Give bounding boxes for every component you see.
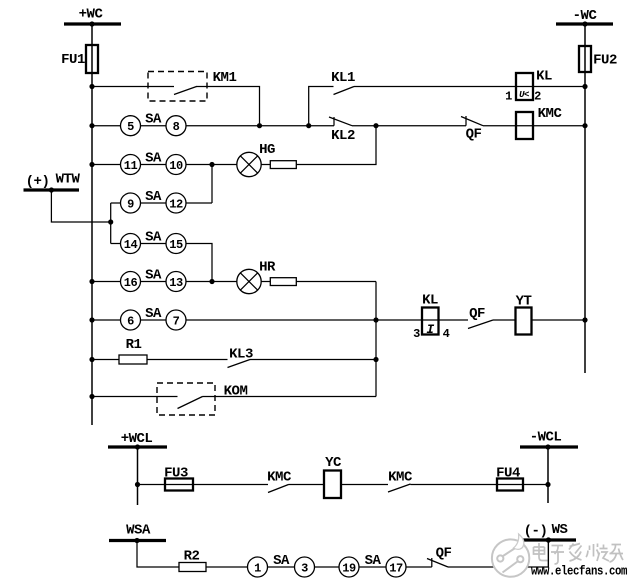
junction +WCL rung [135, 482, 140, 487]
bus bar +WCL [108, 445, 167, 448]
wire SA3 to SA19 [315, 566, 340, 568]
fuse FU4 [496, 466, 523, 491]
wire SA5 to SA8 [141, 125, 167, 127]
node (-)WS label [524, 522, 568, 540]
wire rung8 bus to R1 [92, 359, 119, 361]
SA contact 1 [248, 557, 268, 577]
junction WSA [134, 538, 139, 543]
junction WTW x110 [108, 219, 113, 224]
junction KM1 drop on rung2 [257, 123, 262, 128]
wire WSA down to R2 [137, 541, 179, 568]
svg-text:WS: WS [552, 522, 568, 538]
svg-text:FU3: FU3 [164, 466, 188, 482]
contact KOM (in dashed box) [157, 383, 247, 415]
wire SA10 to HG lamp [186, 164, 237, 166]
svg-text:YT: YT [516, 294, 532, 310]
resistor HR series [270, 278, 296, 286]
wire HG lamp to resistor [261, 164, 270, 166]
wire rung2 KL2 to QF [352, 125, 466, 127]
svg-text:(+): (+) [26, 174, 50, 190]
bus bar -WCL [520, 445, 578, 448]
node (+) WTW label [26, 172, 81, 191]
SA contact 11 [121, 155, 141, 175]
wire HR lamp to resistor [261, 281, 270, 283]
resistor HG series [270, 161, 296, 169]
contact KMC aux 2 [388, 470, 413, 493]
svg-text:12: 12 [169, 198, 183, 212]
svg-text:FU1: FU1 [61, 52, 85, 68]
wire WCL rung KMC2 to FU4 and -WCL [411, 484, 549, 486]
junction left bus rung2 [89, 123, 94, 128]
svg-text:3: 3 [301, 562, 308, 576]
bus bar +WC [64, 22, 121, 25]
SA contact 5 [121, 116, 141, 136]
svg-text:I: I [426, 322, 434, 337]
SA contact 17 [386, 557, 406, 577]
svg-text:KL: KL [536, 69, 552, 85]
junction rung7 x376 [373, 317, 378, 322]
wire rung8 KL3 to x376 [250, 359, 376, 361]
lamp HR [237, 260, 276, 294]
SA contact 9 [121, 193, 141, 213]
wire rung9 KOM to x376 [203, 396, 377, 398]
wire rung1 KM1 to drop [196, 87, 260, 126]
wire rung2 bus to SA5 [92, 125, 121, 127]
svg-text:KMC: KMC [388, 470, 413, 486]
fuse FU2 [579, 46, 617, 72]
svg-text:8: 8 [173, 120, 180, 134]
wire KL1 to KL coil and right bus [354, 86, 585, 88]
junction left bus rung6 [89, 279, 94, 284]
SA contact 12 [166, 193, 186, 213]
wire rung7 SA7 to QF [186, 319, 468, 321]
svg-text:1: 1 [505, 90, 512, 104]
wire rung3 bus to SA11 [92, 164, 121, 166]
wire rung7 bus to SA6 [92, 319, 121, 321]
svg-text:7: 7 [173, 315, 180, 329]
wire WTW feed (crosses left bus without joining) [51, 190, 110, 222]
SA contact 7 [166, 310, 186, 330]
contact QF (NC) bottom [427, 546, 451, 568]
svg-text:FU2: FU2 [593, 53, 617, 69]
wire SA19 to SA17 [359, 566, 386, 568]
wire right bus -WC vertical [584, 24, 586, 373]
svg-text:QF: QF [466, 127, 482, 143]
junction rung8 x376 [373, 357, 378, 362]
junction rung2 right bus [582, 123, 587, 128]
svg-text:KL2: KL2 [331, 128, 355, 144]
watermark logo circle [492, 534, 529, 577]
svg-text:1: 1 [254, 562, 261, 576]
SA contact 14 [121, 234, 141, 254]
SA contact 6 [121, 310, 141, 330]
contact QF rung7 [468, 306, 493, 329]
SA contact 19 [339, 557, 359, 577]
svg-text:KMC: KMC [538, 106, 563, 122]
junction WTW bar [49, 187, 54, 192]
contact KMC aux 1 [267, 470, 292, 493]
SA contact 3 [295, 557, 315, 577]
contactor coil KMC [516, 106, 562, 139]
lamp HG [237, 142, 275, 177]
svg-text:17: 17 [389, 562, 403, 576]
wire rung2 QF to KMC coil and right bus [483, 125, 585, 127]
svg-text:3: 3 [413, 327, 420, 341]
resistor R2 [179, 549, 206, 572]
svg-text:WSA: WSA [126, 523, 151, 539]
junction rung6 x212 [209, 279, 214, 284]
watermark text chinese [534, 543, 624, 564]
svg-text:QF: QF [436, 546, 452, 562]
svg-text:KL1: KL1 [331, 70, 355, 86]
svg-text:KM1: KM1 [213, 70, 237, 86]
wire SA14 to SA15 [141, 243, 167, 245]
svg-text:9: 9 [127, 198, 134, 212]
wire SA11 to SA10 [141, 164, 167, 166]
wire R1 to KL3 [147, 359, 228, 361]
svg-text:6: 6 [127, 315, 134, 329]
fuse FU1 [61, 45, 98, 73]
SA contact 16 [121, 272, 141, 292]
svg-text:14: 14 [124, 238, 138, 252]
wire left bus +WC vertical [91, 24, 93, 425]
contact KL1 [331, 70, 355, 95]
junction (-)WS dot [546, 537, 551, 542]
junction rung7 right bus [582, 317, 587, 322]
wire SA12 to x212 [186, 202, 212, 204]
wire SA9 to SA12 [141, 202, 167, 204]
junction (-)WS [546, 537, 551, 542]
SA contact 15 [166, 234, 186, 254]
wire rung3 resistor to riser [297, 126, 377, 165]
junction rung1 right bus [582, 84, 587, 89]
wire rung2 SA8 to KL2 [186, 125, 334, 127]
junction left bus rung7 [89, 317, 94, 322]
svg-text:HR: HR [259, 260, 276, 276]
wire (-)WS riser over watermark [547, 540, 549, 567]
relay coil KL pins 1-2 [505, 69, 552, 104]
junction +WC [89, 21, 94, 26]
svg-text:11: 11 [124, 159, 138, 173]
SA contact 13 [166, 272, 186, 292]
svg-text:15: 15 [169, 238, 183, 252]
svg-text:YC: YC [325, 455, 342, 471]
wire QF to WS [448, 540, 548, 567]
svg-text:10: 10 [169, 159, 183, 173]
contact KM1 (in dashed box) [148, 70, 236, 101]
svg-text:R2: R2 [184, 549, 200, 565]
wire SA6 to SA7 [141, 319, 167, 321]
wire rung6 bus to SA16 [92, 281, 121, 283]
junction +WCL [135, 444, 140, 449]
wire rung6 resistor to x376 [297, 281, 377, 283]
coil YT [516, 294, 532, 335]
wire WCL rung KMC to YC [289, 484, 389, 486]
svg-text:HG: HG [259, 142, 275, 158]
junction -WCL rung [545, 482, 550, 487]
resistor R1 [119, 337, 147, 364]
bus bar WSA [109, 539, 166, 542]
contact KL2 (NC) [329, 117, 355, 144]
wire SA17 to QF [406, 566, 432, 568]
wire SA13 to HR lamp [186, 281, 237, 283]
bus bar WTW [24, 188, 80, 191]
junction KL1 riser on rung2 [306, 123, 311, 128]
wire vertical x376 rung6 to rung9 [375, 282, 377, 397]
svg-text:13: 13 [169, 276, 183, 290]
wire +WCL vertical [137, 447, 139, 505]
SA contact 8 [166, 116, 186, 136]
wire KL1 branch riser [309, 87, 334, 126]
svg-text:4: 4 [443, 327, 450, 341]
wire SA16 to SA13 [141, 281, 167, 283]
wire WCL rung bus to FU3 [138, 484, 269, 486]
junction left bus rung9 [89, 394, 94, 399]
wire rung9 bus to KOM [92, 396, 178, 398]
svg-text:16: 16 [124, 276, 138, 290]
svg-text:KL: KL [422, 293, 438, 309]
contact KL3 [228, 347, 253, 368]
junction left bus rung1 [89, 84, 94, 89]
svg-text:5: 5 [127, 120, 134, 134]
junction left bus rung3 [89, 162, 94, 167]
wire -WCL vertical [547, 447, 549, 503]
svg-text:19: 19 [342, 562, 356, 576]
svg-text:U<: U< [519, 90, 529, 100]
wire rung4 left lead [111, 202, 121, 204]
svg-text:www.elecfans.com: www.elecfans.com [531, 564, 628, 579]
coil YC [324, 455, 342, 498]
svg-text:2: 2 [534, 90, 541, 104]
SA contact 10 [166, 155, 186, 175]
junction rung2 HG branch [373, 123, 378, 128]
svg-text:+WC: +WC [79, 7, 104, 23]
svg-text:KMC: KMC [267, 470, 292, 486]
svg-text:R1: R1 [126, 337, 142, 353]
svg-text:WTW: WTW [56, 172, 81, 188]
bus bar -WC [556, 22, 613, 25]
wire rung1 from left bus to KM1 contact [92, 86, 174, 88]
svg-text:KL3: KL3 [229, 347, 253, 363]
junction -WCL [545, 444, 550, 449]
junction rung3 x212 [209, 162, 214, 167]
wire SA15 down to rung6 [186, 244, 212, 282]
bus bar (-)WS [519, 538, 576, 541]
wire rung7 QF to right bus [493, 319, 585, 321]
junction left bus rung8 [89, 357, 94, 362]
relay coil KL pins 3-4 [413, 293, 450, 341]
fuse FU3 [164, 466, 193, 491]
wire R2 to SA1 [206, 566, 248, 568]
svg-text:FU4: FU4 [496, 466, 520, 482]
junction -WC [582, 21, 587, 26]
svg-text:(-): (-) [524, 524, 548, 540]
wire rung5 left lead [111, 243, 121, 245]
wire vertical x110 rung4 to rung5 [110, 203, 112, 244]
svg-text:-WCL: -WCL [530, 430, 562, 446]
wire vertical x212 rung3 to rung4 [211, 165, 213, 204]
svg-text:QF: QF [469, 306, 485, 322]
contact QF (NC) rung2 [461, 116, 483, 143]
wire SA1 to SA3 [268, 566, 295, 568]
